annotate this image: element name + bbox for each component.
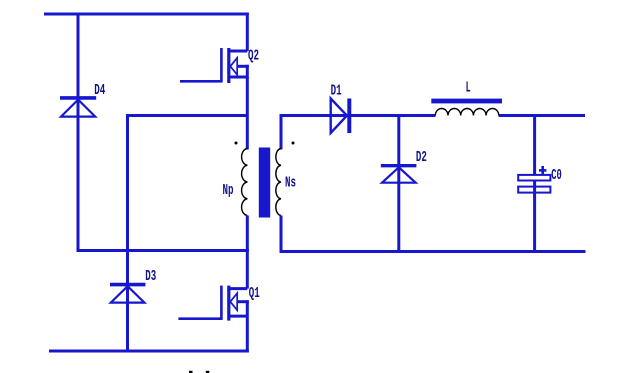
transformer primary winding Np bbox=[242, 149, 248, 216]
wire: Ns bottom stub bbox=[280, 216, 283, 254]
winding dot primary bbox=[235, 142, 238, 145]
wire: clamp branch horizontal bbox=[128, 114, 248, 117]
winding dot secondary bbox=[292, 142, 295, 145]
wire: - input rail (bottom) bbox=[49, 350, 249, 353]
wire: C0 leg bottom bbox=[533, 181, 536, 254]
svg-text:C0: C0 bbox=[551, 167, 562, 184]
diode D4 bbox=[60, 98, 96, 117]
svg-text:Np: Np bbox=[223, 182, 234, 199]
wire: D2 leg vertical bbox=[397, 114, 400, 253]
diode D1 bbox=[331, 99, 350, 134]
wire: Q2 source to primary bbox=[246, 77, 249, 150]
wire: + input rail (top) bbox=[44, 13, 249, 16]
wire: C0 leg top bbox=[533, 114, 536, 176]
svg-text:D1: D1 bbox=[331, 83, 342, 100]
svg-text:L: L bbox=[466, 79, 471, 96]
wire: D4 leg vertical bbox=[77, 13, 80, 251]
wire: secondary output rail (bottom) bbox=[280, 250, 586, 253]
wire: Q1 drain vertical bbox=[246, 249, 249, 289]
wire: Ns to L horizontal bbox=[280, 114, 436, 117]
wire: primary return horizontal bbox=[77, 249, 249, 252]
transistor Q1 bbox=[178, 286, 248, 321]
svg-text:D2: D2 bbox=[416, 149, 427, 166]
wire: Ns top stub bbox=[280, 114, 283, 150]
wire: D3 branch vertical bbox=[126, 114, 129, 353]
capacitor C0 bbox=[518, 166, 550, 193]
svg-text:Q1: Q1 bbox=[249, 285, 260, 302]
transformer secondary winding Ns bbox=[276, 149, 281, 216]
inductor L core bar bbox=[431, 99, 502, 104]
inductor L winding bbox=[435, 108, 499, 115]
svg-text:D4: D4 bbox=[94, 82, 105, 99]
wire: Q1 source vertical bbox=[246, 316, 249, 352]
transistor Q2 bbox=[180, 48, 249, 83]
svg-text:D3: D3 bbox=[145, 268, 156, 285]
wire: L to output horizontal bbox=[499, 114, 585, 117]
wire: primary bottom stub bbox=[246, 216, 249, 251]
wire: Q2 drain vertical bbox=[246, 13, 249, 52]
diode D3 bbox=[110, 285, 145, 303]
transformer core bbox=[259, 148, 270, 218]
diode D2 bbox=[381, 166, 417, 183]
svg-text:Ns: Ns bbox=[285, 175, 296, 192]
svg-text:Q2: Q2 bbox=[248, 48, 259, 65]
caption (a) partial top tips bbox=[189, 371, 209, 373]
